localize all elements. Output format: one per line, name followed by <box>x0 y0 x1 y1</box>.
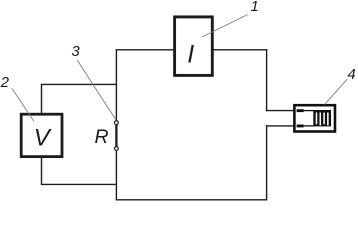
heater coil slot 3 <box>323 113 325 125</box>
svg-text:2: 2 <box>0 74 10 91</box>
heater connector wire bottom <box>303 125 314 127</box>
ammeter U1 box <box>175 17 213 76</box>
heater terminal bar top <box>297 109 304 112</box>
wire left vertical <box>115 50 117 200</box>
heater terminal bar bottom <box>297 125 304 128</box>
wire top left segment <box>116 49 176 51</box>
heater connector wire top <box>303 110 314 112</box>
svg-text:I: I <box>187 41 194 69</box>
heater coil slot 4 <box>327 113 329 126</box>
svg-text:4: 4 <box>347 66 355 83</box>
leader line to label 2 <box>12 88 34 121</box>
resistor terminal node bottom <box>115 147 119 151</box>
wire right vertical upper <box>266 50 268 111</box>
wire branch to component 4 top <box>267 110 298 112</box>
resistor terminal node top <box>115 121 119 125</box>
wire voltmeter branch bottom <box>42 155 117 184</box>
resistor R body <box>115 124 117 149</box>
svg-text:V: V <box>34 124 52 151</box>
svg-text:3: 3 <box>71 43 80 60</box>
voltmeter V box <box>21 114 62 156</box>
wire bottom <box>116 199 266 201</box>
heater element box (component 4) <box>294 105 335 131</box>
heater coil block <box>313 110 331 126</box>
wire right vertical lower <box>266 126 268 200</box>
wire branch to component 4 bottom <box>267 125 298 127</box>
heater coil slot 1 <box>316 113 318 125</box>
leader line to label 4 <box>325 79 347 104</box>
wire voltmeter branch top <box>42 84 117 116</box>
leader line to label 1 <box>202 15 248 38</box>
heater coil slot 2 <box>320 113 322 126</box>
svg-text:R: R <box>94 126 108 148</box>
leader line to label 3 <box>77 60 116 120</box>
wire top right segment <box>211 49 267 51</box>
svg-text:1: 1 <box>251 0 259 15</box>
